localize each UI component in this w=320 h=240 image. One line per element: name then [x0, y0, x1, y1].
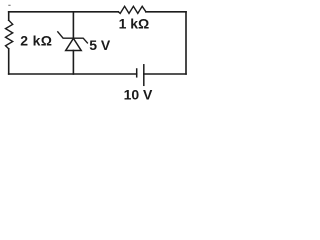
svg-text:10 V: 10 V	[124, 86, 153, 102]
svg-text:5 V: 5 V	[89, 37, 111, 53]
svg-text:1 kΩ: 1 kΩ	[119, 16, 150, 32]
svg-text:2 kΩ: 2 kΩ	[20, 33, 52, 49]
